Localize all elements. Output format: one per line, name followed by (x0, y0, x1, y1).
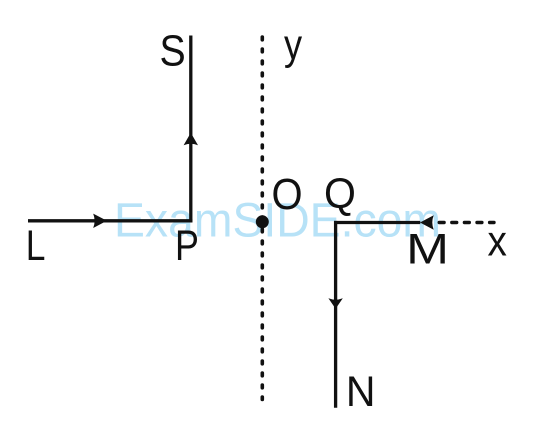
current arrow on L-P (pointing right) (93, 214, 107, 228)
svg-text:M: M (406, 226, 449, 274)
svg-text:S: S (160, 26, 186, 75)
wire Q-N (vertical segment) (334, 221, 337, 408)
svg-text:Q: Q (324, 170, 356, 218)
svg-text:y: y (284, 21, 303, 69)
wire Q-M (horizontal segment) (334, 221, 420, 224)
x-axis (dashed continuation to the right) (439, 221, 494, 224)
svg-text:N: N (346, 368, 376, 416)
wire P-S (vertical segment) (189, 36, 192, 223)
node O (point on y-axis) (256, 215, 269, 228)
svg-text:L: L (26, 222, 46, 270)
current arrow on P-S (pointing up) (184, 133, 198, 145)
svg-text:x: x (488, 218, 508, 266)
y-axis (dotted vertical line) (260, 37, 264, 400)
svg-text:O: O (272, 170, 303, 219)
current arrow on Q-N (pointing down) (328, 298, 342, 309)
svg-text:P: P (175, 222, 199, 270)
current arrow at M (pointing left) (420, 215, 434, 229)
wire L-P (horizontal segment) (28, 219, 192, 222)
